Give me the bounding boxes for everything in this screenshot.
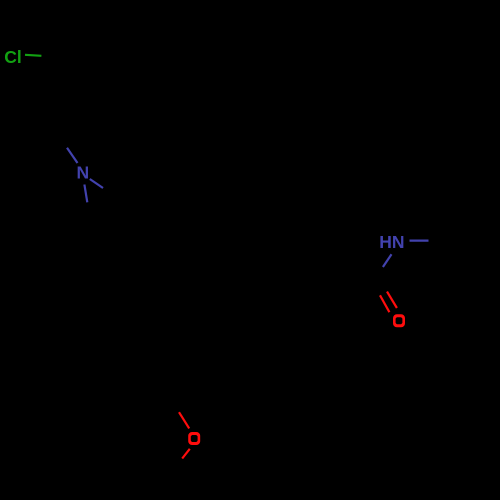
svg-text:HN: HN [379, 232, 404, 252]
svg-text:Cl: Cl [4, 47, 22, 67]
svg-text:N: N [77, 163, 90, 183]
